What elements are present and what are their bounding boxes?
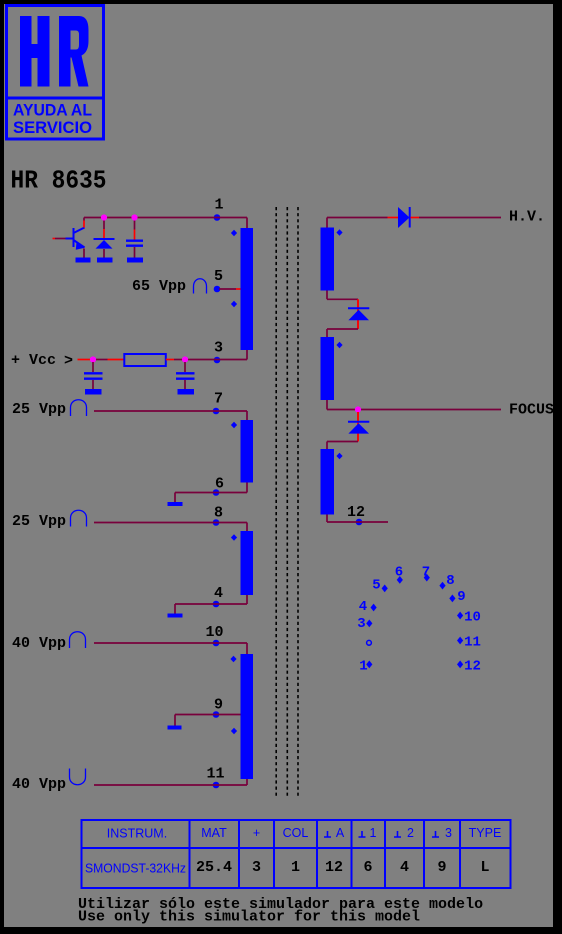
node pin9 xyxy=(213,711,220,718)
svg-text:AYUDA AL: AYUDA AL xyxy=(13,101,92,120)
svg-text:+: + xyxy=(253,826,260,840)
svg-text:4: 4 xyxy=(400,859,409,876)
core dashed lines xyxy=(276,207,298,798)
winding S2 xyxy=(321,337,335,400)
pin dot 4 xyxy=(371,604,377,612)
waveform glyph pin10 xyxy=(70,632,86,648)
wire pin11 xyxy=(94,779,247,785)
svg-text:40 Vpp: 40 Vpp xyxy=(12,635,66,652)
svg-text:INSTRUM.: INSTRUM. xyxy=(107,827,167,841)
polarity dot winding S1 xyxy=(336,229,342,236)
polarity dot winding S3 xyxy=(336,453,342,460)
svg-text:L: L xyxy=(480,859,489,876)
svg-text:>: > xyxy=(64,353,73,370)
ground C3 xyxy=(178,389,195,395)
svg-text:1: 1 xyxy=(291,859,300,876)
svg-text:65 Vpp: 65 Vpp xyxy=(132,278,186,295)
svg-text:11: 11 xyxy=(206,766,224,783)
wire pin12 xyxy=(327,515,388,523)
capacitor C1 xyxy=(126,218,143,258)
pin dot 7 xyxy=(424,574,430,582)
wire pin9 xyxy=(175,715,245,726)
wire to D4 xyxy=(357,412,359,442)
node pin11 xyxy=(213,782,220,789)
wire HV top xyxy=(327,218,388,228)
wire D3 to S2 xyxy=(327,329,358,337)
svg-text:12: 12 xyxy=(325,859,343,876)
svg-text:25 Vpp: 25 Vpp xyxy=(12,513,66,530)
svg-text:COL: COL xyxy=(283,826,309,840)
svg-text:3: 3 xyxy=(214,340,223,357)
logo letter H xyxy=(20,16,50,87)
header gnd 3 xyxy=(432,831,439,837)
polarity dot winding P1 tap xyxy=(231,301,237,308)
ground pin9 xyxy=(168,726,182,730)
svg-text:SMONDST-32KHz: SMONDST-32KHz xyxy=(85,862,186,876)
polarity dot winding S2 xyxy=(336,342,342,349)
svg-text:25 Vpp: 25 Vpp xyxy=(12,401,66,418)
svg-text:11: 11 xyxy=(464,634,481,650)
waveform glyph pin5 xyxy=(194,279,207,294)
ground C2 xyxy=(85,389,102,395)
wire S1 to D3 xyxy=(327,291,358,300)
svg-text:FOCUS: FOCUS xyxy=(509,402,554,419)
wire pin4 xyxy=(175,595,247,614)
diode D1 damper xyxy=(94,218,115,258)
winding P1 pins 1-5-3 xyxy=(241,228,254,350)
junction C3 Vcc net xyxy=(182,356,188,362)
svg-text:1: 1 xyxy=(214,197,223,214)
diode D3 xyxy=(348,308,369,320)
svg-text:8: 8 xyxy=(214,505,223,522)
svg-text:TYPE: TYPE xyxy=(469,826,502,840)
logo box xyxy=(7,6,104,140)
node pin6 xyxy=(213,489,220,496)
resistor R1 xyxy=(124,354,166,366)
node pin7 xyxy=(213,408,220,415)
svg-text:5: 5 xyxy=(214,268,223,285)
svg-text:6: 6 xyxy=(395,565,403,581)
pin dot 3 xyxy=(366,620,372,628)
pin dot hollow xyxy=(367,640,372,645)
polarity dot winding P4 top xyxy=(230,656,236,663)
svg-text:40 Vpp: 40 Vpp xyxy=(12,776,66,793)
svg-text:10: 10 xyxy=(205,624,223,641)
svg-text:3: 3 xyxy=(357,616,365,632)
pin dot 10 xyxy=(457,612,463,620)
svg-text:3: 3 xyxy=(445,826,452,840)
header gnd 1 xyxy=(359,831,366,837)
pin dot 12 xyxy=(457,661,463,669)
wire pin3 xyxy=(190,350,247,360)
ground D1 xyxy=(97,258,113,263)
svg-text:SERVICIO: SERVICIO xyxy=(13,118,92,137)
junction D1 collector net xyxy=(101,214,107,220)
svg-text:MAT: MAT xyxy=(201,826,227,840)
wire pin1 top xyxy=(84,218,247,229)
wire pin6 xyxy=(175,483,247,503)
wire pin10 xyxy=(94,643,247,654)
winding P2 pins 7-6 xyxy=(241,420,254,483)
pin dot 8 xyxy=(439,582,445,590)
junction C1 collector net xyxy=(131,214,137,220)
capacitor C2 xyxy=(84,362,103,389)
svg-text:2: 2 xyxy=(407,826,414,840)
svg-text:9: 9 xyxy=(457,589,465,605)
svg-text:4: 4 xyxy=(359,599,367,615)
wire pin8 xyxy=(94,523,247,532)
waveform glyph pin11 xyxy=(70,769,86,785)
polarity dot winding P3 xyxy=(231,534,237,541)
svg-text:1: 1 xyxy=(359,659,367,675)
transistor Q1 xyxy=(53,218,85,258)
svg-text:7: 7 xyxy=(214,391,223,408)
junction D4 focus net xyxy=(355,406,361,412)
ground C1 xyxy=(127,258,143,263)
svg-text:1: 1 xyxy=(370,826,377,840)
svg-text:+ Vcc: + Vcc xyxy=(11,352,56,369)
node pin8 xyxy=(213,519,220,526)
winding P4 pins 10-9-11 xyxy=(241,654,254,779)
svg-text:7: 7 xyxy=(422,565,430,581)
polarity dot winding P2 xyxy=(231,422,237,429)
svg-text:H.V.: H.V. xyxy=(509,209,545,226)
pin dot 5 xyxy=(382,585,388,593)
svg-text:HR 8635: HR 8635 xyxy=(11,166,107,196)
polarity dot winding P1 top xyxy=(231,230,237,237)
header gnd A xyxy=(324,831,331,837)
node pin4 xyxy=(213,601,220,608)
wire FOCUS xyxy=(327,400,501,410)
pin dot 1 xyxy=(366,661,372,669)
pin dot 9 xyxy=(449,595,455,603)
diode D2 HV xyxy=(398,207,410,228)
wire pin5 tap xyxy=(219,288,236,290)
svg-text:12: 12 xyxy=(464,659,481,675)
winding S1 xyxy=(321,228,335,291)
wire D4 to S3 xyxy=(327,442,358,450)
svg-text:5: 5 xyxy=(372,577,380,593)
node pin10 xyxy=(213,640,220,647)
junction C2 Vcc net xyxy=(90,356,96,362)
node pin3 xyxy=(214,357,221,364)
polarity dot winding P4 tap xyxy=(231,728,237,735)
svg-text:12: 12 xyxy=(347,504,365,521)
svg-text:3: 3 xyxy=(252,859,261,876)
pin dot 6 xyxy=(397,576,403,584)
svg-text:Use only this simulator for th: Use only this simulator for this model xyxy=(78,909,420,926)
svg-text:8: 8 xyxy=(446,573,454,589)
svg-text:25.4: 25.4 xyxy=(196,859,232,876)
wire pin7 xyxy=(94,411,247,420)
header gnd 2 xyxy=(394,831,401,837)
node pin5 xyxy=(214,286,221,293)
ground Q1 xyxy=(76,258,91,263)
winding S3 xyxy=(321,449,335,515)
svg-text:10: 10 xyxy=(464,609,481,625)
svg-text:4: 4 xyxy=(214,585,223,602)
node dot pin12 xyxy=(356,519,363,526)
svg-text:6: 6 xyxy=(215,476,224,493)
svg-text:9: 9 xyxy=(214,697,223,714)
pin dot 11 xyxy=(457,637,463,645)
ground pin4 xyxy=(168,614,183,618)
ground pin6 xyxy=(168,502,183,506)
logo letter R xyxy=(59,16,89,87)
winding P3 pins 8-4 xyxy=(241,531,254,595)
svg-text:6: 6 xyxy=(363,859,372,876)
capacitor C3 xyxy=(176,362,195,389)
svg-text:A: A xyxy=(336,826,345,840)
node pin1 xyxy=(214,214,221,221)
waveform glyph pin7 xyxy=(71,400,87,416)
waveform glyph pin8 xyxy=(71,510,87,526)
svg-text:9: 9 xyxy=(437,859,446,876)
diode D4 xyxy=(348,422,369,434)
